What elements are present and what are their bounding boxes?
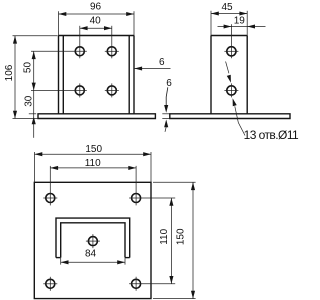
svg-text:40: 40 [90, 15, 102, 26]
svg-text:6: 6 [159, 57, 165, 68]
svg-text:96: 96 [90, 2, 102, 13]
svg-text:110: 110 [159, 228, 170, 244]
svg-text:6: 6 [166, 78, 172, 89]
svg-text:150: 150 [175, 228, 186, 245]
svg-text:150: 150 [85, 144, 102, 155]
svg-text:106: 106 [4, 64, 15, 81]
svg-text:110: 110 [85, 158, 101, 169]
svg-text:84: 84 [85, 249, 97, 260]
svg-text:50: 50 [22, 62, 33, 74]
svg-text:13 отв.Ø11: 13 отв.Ø11 [244, 128, 299, 142]
svg-text:30: 30 [23, 95, 34, 107]
svg-text:19: 19 [234, 15, 246, 26]
svg-text:45: 45 [221, 2, 233, 13]
